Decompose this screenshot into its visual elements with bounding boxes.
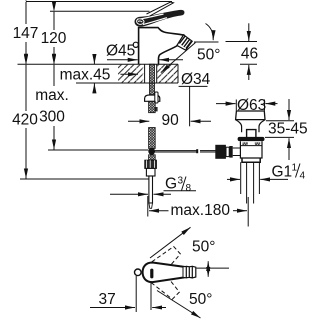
angle 50 upper: arc arrow xyxy=(206,24,214,41)
top view: dashed lever rotated up 50 xyxy=(140,244,183,286)
lever handle highlight xyxy=(141,14,168,25)
dimension 147 xyxy=(13,2,39,64)
deck hatched section left of faucet xyxy=(118,65,143,83)
pop-up waste flange xyxy=(238,137,265,141)
dimension Ø45 xyxy=(106,43,183,60)
svg-text:50°: 50° xyxy=(197,47,220,64)
top view: swing mini arrow up xyxy=(207,261,209,268)
top view: lower 50 diagonal xyxy=(157,291,201,319)
svg-text:Ø34: Ø34 xyxy=(181,71,211,88)
svg-text:37: 37 xyxy=(99,291,116,308)
aerator xyxy=(177,35,192,50)
top view: swing mini arrow down xyxy=(207,268,209,277)
ref line max300 bottom xyxy=(48,149,148,151)
lever knob highlight xyxy=(137,19,144,25)
svg-text:G1: G1 xyxy=(272,164,293,181)
top view: pop-up rod knob xyxy=(135,269,142,276)
deck hatched section right of faucet xyxy=(157,65,178,83)
nipple tip xyxy=(149,203,153,208)
top view: upper 50 diagonal xyxy=(150,227,191,258)
dimension G1 1/4 xyxy=(227,162,306,194)
hose below ball xyxy=(149,155,156,160)
svg-text:50°: 50° xyxy=(189,291,212,308)
svg-text:max.: max. xyxy=(35,87,69,104)
pop-up rod horizontal xyxy=(155,149,216,153)
waste tailpipe xyxy=(247,162,254,203)
dimension max.180 xyxy=(148,196,248,227)
dimension 420 xyxy=(12,65,38,179)
svg-text:1: 1 xyxy=(292,163,298,174)
dimension max.45 xyxy=(60,54,111,92)
svg-text:4: 4 xyxy=(300,171,306,182)
counter top line xyxy=(18,63,179,65)
dimension 46 xyxy=(241,23,258,80)
dimension 37 xyxy=(90,276,166,312)
pop-up waste body bottom cup xyxy=(242,158,260,162)
pop-up waste cap xyxy=(236,111,265,120)
ref line top of raised lever (147 level) xyxy=(26,1,172,3)
pop-up waste stem block xyxy=(247,130,256,138)
hose hex fitting xyxy=(145,160,157,168)
threaded shank through deck xyxy=(150,64,155,95)
deck right edge xyxy=(177,64,179,83)
lever raised (outline) xyxy=(147,2,174,16)
top view: centerline right xyxy=(197,267,230,269)
pop-up waste: dimension Ø63 xyxy=(216,97,278,114)
top view: lever pivot tick xyxy=(150,269,153,279)
deck hole left edge xyxy=(144,64,146,83)
dimension 120 xyxy=(41,12,67,64)
flexible hose lower xyxy=(149,128,156,149)
svg-text:50°: 50° xyxy=(192,239,215,256)
svg-text:G: G xyxy=(165,176,177,193)
angle 50 upper: horizontal reference line xyxy=(194,41,257,44)
svg-text:90: 90 xyxy=(162,112,180,129)
svg-text:Ø45: Ø45 xyxy=(106,43,135,60)
svg-text:300: 300 xyxy=(39,109,65,126)
dimension Ø34 with leader xyxy=(120,71,210,126)
svg-text:8: 8 xyxy=(186,183,192,194)
pop-up rod clamp lower mark xyxy=(155,107,158,111)
ref line 420 bottom xyxy=(20,178,149,180)
G3/8 nipple tube xyxy=(149,176,153,203)
top view: dashed lever rotated down 50 xyxy=(140,260,182,302)
angle 50 upper: spray axis line xyxy=(161,43,196,73)
top view: lever handle solid xyxy=(143,263,196,283)
faucet temperature ring xyxy=(133,42,138,47)
lever handle (normal position) xyxy=(135,10,185,27)
counter top extension right (for 46) xyxy=(240,63,257,65)
pop-up rod clamp xyxy=(155,92,158,103)
svg-text:3: 3 xyxy=(178,176,184,187)
pop-up rod ball joint xyxy=(148,148,155,155)
hose ferrule xyxy=(146,168,155,176)
deck hole right edge xyxy=(156,64,158,83)
svg-text:147: 147 xyxy=(13,25,39,42)
flexible hose upper xyxy=(149,101,156,112)
svg-text:120: 120 xyxy=(41,30,67,47)
svg-text:max.180: max.180 xyxy=(171,202,231,219)
pop-up waste body xyxy=(240,141,262,158)
ref line top of lever (120 level) xyxy=(50,10,150,12)
svg-text:max.45: max.45 xyxy=(60,67,111,84)
faucet body xyxy=(139,28,184,65)
svg-text:35-45: 35-45 xyxy=(268,121,308,138)
mounting nut xyxy=(145,95,160,101)
dimension G3/8 xyxy=(110,176,196,195)
ref line deck bottom (max45 level) xyxy=(76,82,178,84)
dimension 90 xyxy=(128,112,211,129)
svg-text:46: 46 xyxy=(241,46,258,63)
svg-text:420: 420 xyxy=(12,112,38,129)
dimension 35-45 xyxy=(265,99,308,160)
pop-up waste neck xyxy=(236,120,265,132)
pop-up waste lever ball housing xyxy=(215,145,240,159)
dimension max.300 xyxy=(35,65,69,150)
